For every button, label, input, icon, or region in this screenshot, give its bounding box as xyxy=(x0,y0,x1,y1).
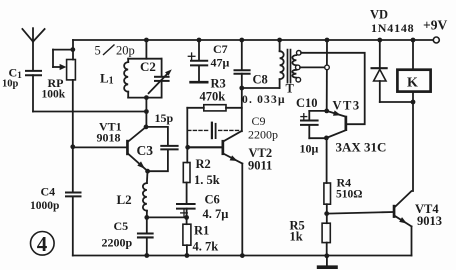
svg-text:2200p: 2200p xyxy=(248,127,278,141)
inductor L1 xyxy=(124,59,162,98)
wire rail drop to VT3 emitter xyxy=(326,40,328,111)
wire VT4 base xyxy=(327,212,393,214)
node VD/K junction xyxy=(411,100,416,105)
node ground rail C5 xyxy=(144,253,149,258)
transistor VT4 xyxy=(393,191,412,255)
svg-text:R4: R4 xyxy=(337,175,352,189)
node VT1 collector xyxy=(144,125,149,130)
capacitor C6 electrolytic xyxy=(177,204,195,224)
node RP top-wiper xyxy=(70,47,75,52)
node tank bottom xyxy=(144,95,149,100)
svg-text:T: T xyxy=(286,82,295,96)
svg-text:+9V: +9V xyxy=(423,18,447,33)
node rail/C8 junction xyxy=(239,38,244,43)
wire top +9V rail xyxy=(73,39,434,41)
svg-text:C9: C9 xyxy=(252,114,266,128)
svg-text:R2: R2 xyxy=(196,157,211,171)
node antenna coupling xyxy=(144,109,149,114)
svg-text:C2: C2 xyxy=(140,59,156,74)
svg-text:1N4148: 1N4148 xyxy=(371,21,414,35)
node rail/VD junction xyxy=(377,38,382,43)
transistor VT2 xyxy=(222,131,243,256)
node VT3 emitter xyxy=(324,109,329,114)
svg-text:C3: C3 xyxy=(137,143,154,158)
node ground rail R1 xyxy=(185,253,190,258)
svg-text:20p: 20p xyxy=(116,44,135,58)
svg-text:C4: C4 xyxy=(41,184,56,198)
svg-text:10p: 10p xyxy=(2,79,19,90)
capacitor C1 xyxy=(26,71,41,112)
node VT3 collector xyxy=(324,136,329,141)
node L2 bottom xyxy=(144,215,149,220)
svg-text:0. 033μ: 0. 033μ xyxy=(242,94,286,106)
resistor R3 xyxy=(187,105,242,111)
capacitor C5 xyxy=(138,217,153,255)
wire rail to tank xyxy=(145,40,147,59)
terminal +9V xyxy=(433,37,439,43)
resistor R5 xyxy=(322,223,330,256)
transformer T secondary xyxy=(292,51,301,82)
capacitor C8 xyxy=(235,40,250,131)
svg-text:47μ: 47μ xyxy=(211,55,230,69)
wire R3 left branch down xyxy=(186,108,188,163)
resistor R1 xyxy=(183,224,191,255)
node C8/T-primary junction xyxy=(239,86,244,91)
svg-text:2200p: 2200p xyxy=(102,235,133,249)
wire secondary top tap to VT3 base xyxy=(301,53,365,124)
svg-text:9011: 9011 xyxy=(248,158,272,172)
svg-text:9018: 9018 xyxy=(97,130,121,144)
svg-text:100k: 100k xyxy=(42,88,66,100)
relay K xyxy=(397,40,430,191)
node rail/K junction xyxy=(411,38,416,43)
svg-text:R1: R1 xyxy=(194,223,209,237)
svg-text:C7: C7 xyxy=(213,42,228,56)
svg-text:C5: C5 xyxy=(114,219,129,233)
variable capacitor C2 xyxy=(149,59,172,98)
capacitor C4 xyxy=(66,193,81,256)
transformer T primary xyxy=(280,40,284,88)
svg-text:C8: C8 xyxy=(253,72,268,86)
svg-text:C10: C10 xyxy=(296,96,318,110)
wire C8 node to transformer primary xyxy=(242,87,280,89)
transformer T core xyxy=(288,50,291,83)
wire VT2 base xyxy=(188,146,222,148)
svg-text:K: K xyxy=(407,75,418,90)
svg-text:VD: VD xyxy=(370,7,388,21)
svg-text:4. 7k: 4. 7k xyxy=(193,239,219,253)
svg-text:470k: 470k xyxy=(200,89,226,103)
node rail/T-primary junction xyxy=(277,38,282,43)
inductor L2 xyxy=(143,171,148,217)
node VT1 emitter xyxy=(145,169,150,174)
node ground rail R5 xyxy=(324,253,329,258)
capacitor C10 electrolytic xyxy=(301,111,327,138)
svg-text:10μ: 10μ xyxy=(300,141,319,155)
wire rail left drop to RP xyxy=(72,40,74,60)
figure number 4 xyxy=(31,232,55,256)
node ground rail VT2 emitter xyxy=(240,253,245,258)
wire antenna node to collector line xyxy=(33,111,146,113)
svg-text:L2: L2 xyxy=(117,192,132,207)
svg-text:R3: R3 xyxy=(211,76,226,90)
node VT4 base xyxy=(324,211,329,216)
svg-text:510Ω: 510Ω xyxy=(336,188,362,200)
wire tank to collector node xyxy=(145,98,147,127)
potentiometer RP xyxy=(53,50,75,80)
svg-text:C6: C6 xyxy=(205,192,220,206)
svg-text:15p: 15p xyxy=(155,111,174,125)
svg-text:9013: 9013 xyxy=(417,214,442,228)
node VT1 base xyxy=(70,144,75,149)
node rail/C7 junction xyxy=(197,38,202,43)
ground at C7 xyxy=(191,81,208,84)
svg-text:1k: 1k xyxy=(290,230,303,244)
svg-text:VT3: VT3 xyxy=(333,99,361,113)
node rail/tank junction xyxy=(144,38,149,43)
wire L2 node to C6/R1 node xyxy=(147,216,187,218)
antenna xyxy=(22,28,44,70)
svg-text:4: 4 xyxy=(37,232,48,256)
wire VT1 base xyxy=(73,146,127,148)
svg-text:4. 7μ: 4. 7μ xyxy=(203,207,229,221)
capacitor C7 electrolytic xyxy=(188,40,207,81)
node C6/R1 junction xyxy=(184,215,189,220)
svg-text:1000p: 1000p xyxy=(30,200,59,212)
wire RP bottom down to C4 xyxy=(72,80,74,192)
node rail/VT3-supply junction xyxy=(325,38,330,43)
svg-text:5: 5 xyxy=(95,44,101,58)
diode VD 1N4148 xyxy=(372,40,413,102)
svg-text:1. 5k: 1. 5k xyxy=(194,173,220,187)
wire secondary mid tap to supply line xyxy=(300,66,325,68)
ground main xyxy=(319,256,336,267)
wire VT3 collector to R4 xyxy=(326,138,328,183)
transistor VT1 xyxy=(126,127,148,171)
resistor R4 xyxy=(324,183,331,223)
svg-text:3AX 31C: 3AX 31C xyxy=(336,139,387,154)
capacitor C3 feedback 15p xyxy=(146,127,178,171)
node VT2 base xyxy=(185,145,190,150)
resistor R2 xyxy=(183,163,190,204)
wire bottom ground rail xyxy=(73,255,412,257)
transistor VT3 xyxy=(326,110,347,137)
capacitor C9 dashed branch xyxy=(188,123,241,138)
terminal circle on supply line xyxy=(325,65,330,70)
